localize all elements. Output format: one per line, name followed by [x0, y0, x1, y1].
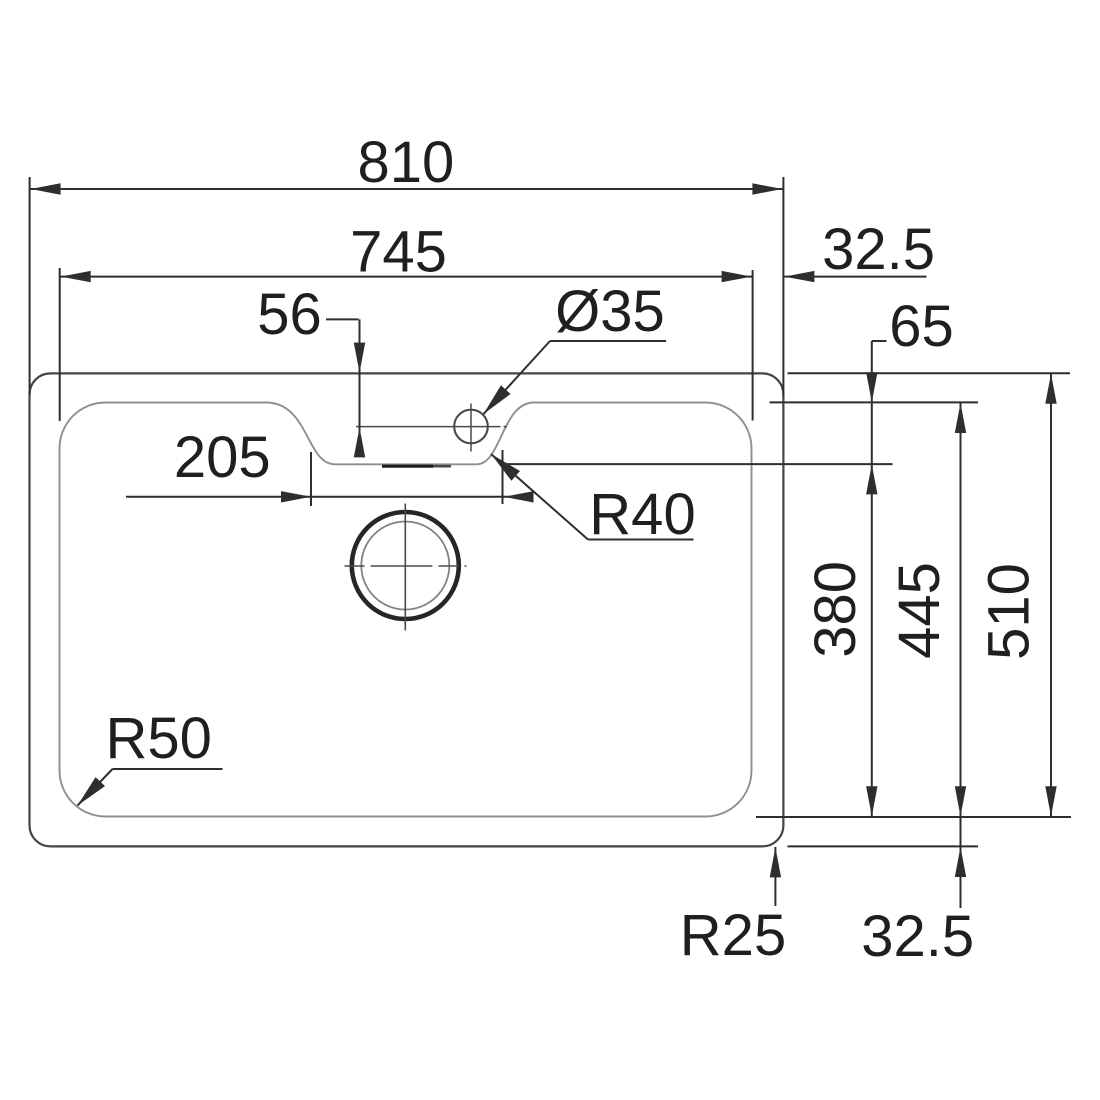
svg-text:445: 445: [887, 562, 952, 659]
leader and label Ø35 (tap hole diameter): [484, 341, 667, 414]
arrow 745 right: [722, 271, 752, 282]
extension line notch plateau right: [500, 463, 893, 465]
svg-text:745: 745: [350, 220, 447, 285]
arrow 810 right: [752, 183, 782, 194]
tap hole circle: [454, 410, 488, 444]
arrow 65 down at bowl top line: [866, 372, 877, 402]
arrow 205 left (pointing right): [281, 491, 311, 502]
arrow 32.5 bottom up at rim bottom line: [955, 847, 966, 877]
drain centerlines: [345, 504, 467, 631]
svg-text:65: 65: [889, 294, 954, 359]
svg-text:R40: R40: [589, 482, 695, 547]
svg-text:32.5: 32.5: [822, 217, 935, 282]
drain inner circle: [361, 522, 449, 610]
svg-text:205: 205: [174, 425, 271, 490]
leader and label R40 (notch fillet radius): [491, 454, 694, 540]
svg-text:32.5: 32.5: [861, 904, 974, 969]
dimension 445 (bowl top to bowl bottom): [960, 403, 962, 908]
svg-text:56: 56: [257, 282, 322, 347]
extension line rim top right: [788, 372, 1071, 374]
tap hole centerlines: [356, 404, 507, 452]
arrow 205 right (pointing left): [504, 491, 534, 502]
dimension 56 (rim to tap hole center): [326, 319, 360, 456]
arrow 745 left: [61, 271, 91, 282]
dimension 810 (overall width, top): [30, 177, 784, 396]
extension line bowl bottom right: [756, 816, 1071, 818]
dimension 32.5 top right: [784, 276, 926, 278]
extension line bowl top right: [770, 401, 979, 403]
svg-text:R25: R25: [680, 903, 786, 968]
arrow Ø35 tip: [479, 385, 511, 418]
dimension 65 leader (bowl top to plateau): [872, 341, 887, 817]
svg-text:380: 380: [803, 561, 868, 658]
arrow 56 down at rim: [354, 343, 365, 373]
svg-text:Ø35: Ø35: [555, 279, 665, 344]
sink outer rim outline (R25 corners): [30, 373, 784, 846]
sink bowl outline (inner basin, R50 corners, tap-ledge notch): [60, 403, 752, 817]
dimension 380 arrows (plateau to bowl bottom): [866, 464, 877, 494]
svg-text:810: 810: [358, 130, 455, 195]
arrow 810 left: [31, 183, 61, 194]
arrow R50 tip: [73, 777, 105, 810]
extension line rim bottom right: [788, 845, 979, 847]
arrow 32.5 top: [784, 271, 814, 282]
arrow 56 up at hole centerline: [354, 427, 365, 457]
svg-text:R50: R50: [105, 706, 211, 771]
dimension 510 (rim top to bowl bottom line): [1050, 374, 1052, 817]
arrow R25 tip: [770, 847, 781, 877]
svg-text:510: 510: [977, 563, 1042, 660]
dark ledge mark under notch plateau: [382, 465, 451, 468]
drain outer circle: [352, 512, 459, 619]
dimension 205 (notch width): [126, 450, 530, 506]
dimension 745 (bowl width): [60, 268, 753, 421]
leader and label R25 (rim corner radius): [774, 847, 776, 906]
leader and label R50 (bowl corner radius): [78, 769, 223, 806]
arrow R40 tip: [487, 449, 520, 481]
